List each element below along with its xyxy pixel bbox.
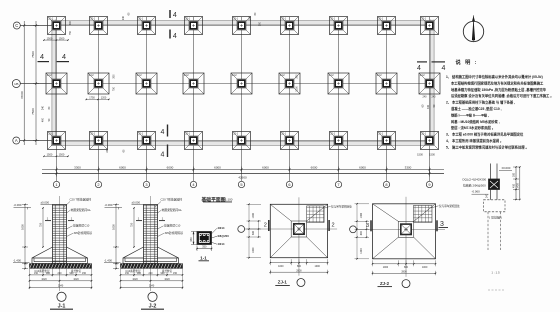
svg-text:400: 400: [427, 104, 430, 109]
pad footing ZJ-1 row A column 5: [233, 132, 251, 150]
svg-text:1020: 1020: [41, 278, 47, 281]
svg-text:-0.060: -0.060: [472, 189, 481, 193]
svg-text:6000: 6000: [167, 165, 174, 169]
svg-text:1020: 1020: [73, 278, 79, 281]
svg-text:1500: 1500: [59, 153, 65, 157]
svg-text:-0.060: -0.060: [105, 203, 113, 207]
svg-text:1000: 1000: [252, 247, 255, 253]
grid column line 6: [289, 17, 291, 181]
svg-text:900: 900: [70, 272, 75, 275]
grid bubble B: [12, 80, 20, 88]
svg-text:800: 800: [297, 265, 302, 268]
svg-text:7: 7: [337, 182, 339, 187]
svg-text:5: 5: [240, 182, 242, 187]
svg-text:1500: 1500: [47, 36, 53, 40]
grid column line 9: [429, 17, 431, 181]
svg-text:6000: 6000: [311, 165, 318, 169]
grid row line C (top axis): [20, 25, 434, 27]
plan detail ZJ-1: outer footing square: [270, 204, 327, 257]
svg-text:混凝土 ——独立基C25 ,垫层 C10 ,: 混凝土 ——独立基C25 ,垫层 C10 ,: [451, 106, 502, 111]
svg-text:240: 240: [42, 105, 45, 110]
svg-text:J-2: J-2: [149, 304, 157, 310]
section detail J-1: footing rebars: [34, 261, 86, 263]
svg-text:4Φ14: 4Φ14: [218, 226, 225, 230]
right strip footing wall (column 9) - edge lines: [429, 20, 431, 146]
section detail J-1: reinforced column shaft: [53, 205, 67, 264]
section detail J-2: extension lines: [120, 269, 122, 290]
svg-text:3、 本工程 ±0.000 相当于绝对标高详见总平面图定位: 3、 本工程 ±0.000 相当于绝对标高详见总平面图定位: [446, 132, 524, 137]
svg-text:4: 4: [161, 129, 165, 136]
DQL detail: wall lines above beam: [490, 164, 492, 180]
svg-text:4Φ14: 4Φ14: [218, 242, 225, 246]
DQL detail: wall below beam: [490, 190, 492, 200]
grid column line 4: [193, 17, 195, 181]
column rebar section 1-1: callout circle: [212, 236, 218, 238]
plan detail ZJ-2: leader text: [432, 206, 439, 208]
column rebar section 1-1: bottom dimension: [197, 248, 212, 250]
plan detail ZJ-1: crane-beam mesh patch: [307, 206, 325, 223]
svg-text:1、 结构施工图中尺寸单位除标高以米计外其余均以毫米计 (0: 1、 结构施工图中尺寸单位除标高以米计外其余均以毫米计 (05-5#): [446, 74, 543, 79]
svg-text:1500: 1500: [417, 153, 423, 157]
svg-text:J-1: J-1: [58, 304, 66, 310]
left vertical total dimension line 15000: [23, 21, 25, 145]
grid bubble 1: [53, 181, 59, 187]
svg-text:750: 750: [39, 222, 43, 227]
svg-text:150: 150: [34, 272, 39, 275]
plan detail ZJ-2: crane-beam mesh patch: [414, 205, 433, 222]
svg-text:240: 240: [58, 272, 63, 275]
svg-text:240: 240: [432, 95, 437, 98]
pad footing ZJ-1 row C column 1: [48, 17, 66, 35]
pad footing ZJ-2 row B column 4: [183, 73, 204, 94]
section detail J-1: left inner dimension line 750: [42, 208, 44, 247]
DQL detail: foundation below (dashed): [484, 200, 506, 212]
svg-text:2800: 2800: [296, 269, 302, 272]
grid column line 8: [386, 17, 388, 181]
svg-text:A: A: [15, 138, 18, 143]
grid row line A (bottom axis): [20, 140, 434, 142]
plan detail ZJ-2: section 3 cut marks: [370, 220, 372, 231]
plan detail ZJ-1: callout circle on axis: [238, 226, 245, 233]
svg-text:-0.060: -0.060: [14, 203, 22, 207]
svg-text:±0.000: ±0.000: [41, 200, 50, 204]
section detail J-2: footing trapezoid with stepped base: [123, 247, 179, 264]
svg-text:2: 2: [332, 223, 335, 229]
svg-text:后须经勘察 设计及有关单位共同验槽 ,合格后方可进行下道工序: 后须经勘察 设计及有关单位共同验槽 ,合格后方可进行下道工序施工 。: [450, 93, 554, 98]
pad footing ZJ-1 row A column 7: [330, 132, 348, 150]
svg-text:1-1: 1-1: [200, 255, 207, 260]
svg-text:3300: 3300: [74, 165, 81, 169]
svg-text:800: 800: [252, 230, 255, 235]
svg-text:900: 900: [46, 272, 51, 275]
plan detail ZJ-1: inner column squares: [291, 221, 307, 237]
DQL detail: right dimension lines: [515, 167, 517, 200]
svg-text:150: 150: [125, 272, 130, 275]
svg-text:说 明 :: 说 明 :: [456, 58, 479, 66]
svg-text:2: 2: [97, 182, 99, 187]
svg-text:1650: 1650: [112, 224, 116, 230]
svg-text:1000: 1000: [360, 212, 363, 218]
svg-text:1750: 1750: [89, 97, 95, 100]
pad footing ZJ-1 row A column 1: [48, 132, 66, 150]
svg-text:M5砂浆砌砖基: M5砂浆砌砖基: [165, 231, 183, 235]
svg-text:1000: 1000: [252, 212, 255, 218]
section detail J-2: axis centerline: [150, 196, 152, 291]
DQL detail: ring beam section block: [489, 179, 500, 190]
svg-text:4: 4: [161, 152, 165, 159]
svg-text:800: 800: [360, 231, 363, 236]
pad footing ZJ-2 row B column 1: [46, 73, 67, 94]
pad footing ZJ-2 row B column 8: [376, 73, 397, 94]
plan detail ZJ-1: leader text: [324, 206, 331, 208]
grid bubble 8: [383, 181, 389, 187]
section detail J-1: footing trapezoid with stepped base: [32, 247, 88, 264]
section detail J-2: title circle: [148, 292, 157, 301]
svg-text:仅与吊车梁相连处: 仅与吊车梁相连处: [439, 204, 460, 208]
pad footing ZJ-2 row B column 6: [279, 73, 300, 94]
svg-text:地圈梁配筋同GL: 地圈梁配筋同GL: [162, 208, 183, 212]
section detail J-1: left outer dimension line: [24, 205, 26, 269]
plan detail ZJ-2: inner column squares: [398, 221, 414, 237]
svg-text:拉结筋 2Φ6@500: 拉结筋 2Φ6@500: [463, 182, 486, 187]
section detail J-2: footing rebars: [125, 261, 177, 263]
svg-text:6000: 6000: [214, 165, 221, 169]
pad footing ZJ-1 row C column 5: [233, 17, 251, 35]
svg-text:750: 750: [113, 86, 116, 91]
grid bubble 7: [335, 181, 341, 187]
svg-text:2040: 2040: [149, 285, 155, 288]
column rebar section 1-1: black section block: [197, 232, 212, 245]
svg-text:4: 4: [417, 65, 421, 72]
strip wall light fill bands: [51, 21, 434, 25]
svg-text:4、 本工程所用 砖基须提前浇水湿润 。: 4、 本工程所用 砖基须提前浇水湿润 。: [446, 138, 503, 143]
svg-text:800: 800: [404, 266, 409, 269]
top strip footing wall (row C) - edge lines: [51, 20, 434, 22]
pad footing ZJ-1 row A column 6: [281, 132, 299, 150]
grid column line 3: [146, 17, 148, 181]
svg-text:6000: 6000: [359, 165, 366, 169]
dimension line: overall dimension 42600: [42, 173, 444, 175]
svg-text:750: 750: [69, 30, 72, 35]
plan detail ZJ-1: slope diagonals: [270, 204, 291, 221]
pad footing ZJ-1 row C column 2: [90, 17, 108, 35]
svg-text:1000: 1000: [278, 265, 284, 268]
svg-text:1400: 1400: [517, 183, 520, 189]
grid column line 5: [241, 17, 243, 181]
svg-text:1500: 1500: [59, 36, 65, 40]
svg-text:1:100: 1:100: [225, 198, 233, 202]
column rebar section 1-1: rebar callout leaders: [212, 228, 218, 234]
pad footing ZJ-1 row A column 2: [90, 132, 108, 150]
pad footing ZJ-1 row A column 8: [378, 132, 396, 150]
pad footing ZJ-2 row B column 7: [328, 73, 349, 94]
svg-text:2: 2: [264, 223, 267, 229]
plan detail ZJ-1: left dimension lines: [248, 204, 250, 257]
section detail J-1: bottom dimension chain: [30, 274, 92, 276]
svg-text:750: 750: [130, 222, 134, 227]
svg-text:4: 4: [173, 33, 177, 40]
svg-text:基础垫层C10: 基础垫层C10: [164, 224, 181, 228]
svg-text:2040: 2040: [58, 285, 64, 288]
svg-text:400: 400: [42, 117, 45, 122]
section detail J-2: bottom dimension chain: [121, 274, 183, 276]
pad footing ZJ-2 row B column 3: [136, 73, 157, 94]
svg-text:3: 3: [145, 182, 147, 187]
column rebar section 1-1: left dimension: [193, 232, 195, 245]
plan detail ZJ-2: bottom dimension lines: [373, 263, 436, 265]
svg-text:1500: 1500: [47, 153, 53, 157]
north arrow compass: [463, 21, 483, 41]
svg-text:-1.400: -1.400: [13, 258, 21, 262]
svg-text:300: 300: [296, 74, 299, 79]
svg-text:900: 900: [137, 272, 142, 275]
svg-text:钢筋 Ⅰ——Φ级 Ⅱ——Φ级 ,: 钢筋 Ⅰ——Φ级 Ⅱ——Φ级 ,: [451, 112, 489, 117]
svg-text:ZJ-2: ZJ-2: [380, 281, 390, 286]
svg-text:240: 240: [149, 272, 154, 275]
pad footing ZJ-1 row A column 4: [185, 132, 203, 150]
svg-text:1200: 1200: [101, 97, 107, 100]
svg-text:C20 T形基础短柱: C20 T形基础短柱: [161, 198, 183, 202]
svg-text:±0.000: ±0.000: [132, 200, 141, 204]
svg-text:300: 300: [113, 74, 116, 79]
svg-text:1650: 1650: [21, 224, 25, 230]
pad footing ZJ-1 row C column 4: [185, 17, 203, 35]
dimension line: bay dimensions: [42, 169, 444, 171]
svg-text:C: C: [15, 23, 18, 28]
bottom strip footing wall (row A) - edge lines: [51, 140, 434, 142]
svg-text:地基承载力特征值取 150kPa ,持力层为粉质粘土层 ,基: 地基承载力特征值取 150kPa ,持力层为粉质粘土层 ,基槽开挖完毕: [451, 87, 547, 92]
svg-text:地圈梁配筋同GL: 地圈梁配筋同GL: [71, 208, 92, 212]
section detail J-2: left inner dimension line 750: [133, 208, 135, 247]
svg-text:300: 300: [513, 172, 516, 177]
pad footing ZJ-1 row C column 3: [138, 17, 156, 35]
svg-text:1000: 1000: [314, 265, 320, 268]
svg-text:42600: 42600: [238, 176, 247, 180]
pad footing ZJ-1 row C column 8: [378, 17, 396, 35]
grid bubble 6: [286, 181, 292, 187]
svg-text:C20 T形基础短柱: C20 T形基础短柱: [70, 198, 92, 202]
svg-text:3300: 3300: [405, 165, 412, 169]
svg-text:M5砂浆砌砖基: M5砂浆砌砖基: [74, 231, 92, 235]
svg-text:6000: 6000: [119, 165, 126, 169]
svg-text:1500: 1500: [429, 153, 435, 157]
svg-text:240: 240: [122, 15, 125, 20]
svg-text:240: 240: [249, 15, 252, 20]
svg-text:4: 4: [62, 52, 66, 61]
plan detail ZJ-2: centerlines: [356, 228, 445, 230]
svg-text:3: 3: [366, 223, 369, 229]
grid bubble A: [13, 137, 20, 144]
svg-text:1000: 1000: [422, 266, 428, 269]
grid column line 1: [56, 17, 58, 181]
left strip footing wall (column 1) - edge lines: [51, 20, 53, 146]
svg-text:1000: 1000: [383, 266, 389, 269]
svg-text:240: 240: [485, 193, 488, 198]
svg-text:5、 施工中如发现异常情况请及时与设计单位联系处理 。: 5、 施工中如发现异常情况请及时与设计单位联系处理 。: [446, 144, 529, 149]
plan detail ZJ-1: title circle: [297, 279, 305, 287]
svg-text:150: 150: [82, 272, 87, 275]
section 4-4 cut at top strip: [169, 10, 171, 18]
svg-text:350: 350: [189, 237, 193, 242]
section detail J-2: reinforced column shaft: [144, 205, 158, 264]
pad footing ZJ-2 row B column 9: [419, 73, 440, 94]
svg-text:1000: 1000: [360, 248, 363, 254]
plan detail ZJ-2: callout circle on axis: [350, 226, 357, 233]
svg-text:900: 900: [161, 272, 166, 275]
grid column line 2: [98, 17, 100, 181]
plan detail ZJ-2: left dimension lines: [356, 204, 358, 259]
grid bubble 9: [426, 181, 432, 187]
svg-text:-1.400: -1.400: [104, 258, 112, 262]
pad footing ZJ-1 row A column 9: [421, 132, 439, 150]
svg-text:1 : 1.5: 1 : 1.5: [491, 271, 500, 275]
svg-text:Φ8@200: Φ8@200: [218, 234, 230, 238]
svg-text:7500: 7500: [31, 108, 35, 115]
section detail J-1: axis centerline: [59, 196, 61, 291]
pad footing ZJ-1 row C column 6: [281, 17, 299, 35]
svg-text:300: 300: [69, 20, 72, 25]
svg-text:7500: 7500: [31, 51, 35, 58]
grid row line B (middle axis): [20, 83, 434, 85]
svg-text:4: 4: [442, 65, 446, 72]
svg-text:2800: 2800: [401, 270, 407, 273]
pad footing ZJ-1 row A column 3: [138, 132, 156, 150]
plan detail ZJ-1: section 2 cut marks: [268, 220, 270, 231]
svg-text:砖基 : MU10烧结砖 M5水泥砂浆 ,: 砖基 : MU10烧结砖 M5水泥砂浆 ,: [450, 119, 500, 124]
svg-text:1020: 1020: [164, 278, 170, 281]
section 4-4 cut at bottom strip: [167, 125, 169, 137]
svg-text:6: 6: [288, 182, 290, 187]
grid bubble 4: [190, 181, 196, 187]
pad footing ZJ-2 row B column 2: [88, 73, 109, 94]
grid bubble 2: [95, 181, 101, 187]
section detail J-2: bedding slab with hatch: [121, 264, 183, 269]
plan detail ZJ-2: outer footing square: [373, 204, 436, 259]
section detail J-2: section 1-1 cut marks on column: [136, 220, 142, 222]
svg-text:±0.000: ±0.000: [502, 166, 511, 170]
svg-text:300: 300: [259, 21, 262, 26]
pad footing ZJ-1 row C column 9: [421, 17, 439, 35]
section detail J-2: left outer dimension line: [115, 205, 117, 269]
svg-text:垫层 : 浇M7.5水泥砂浆面层 。: 垫层 : 浇M7.5水泥砂浆面层 。: [451, 125, 495, 130]
svg-text:1/B: 1/B: [14, 82, 18, 86]
plan detail ZJ-2: title circle: [402, 280, 410, 288]
svg-text:240: 240: [423, 95, 428, 98]
svg-text:1: 1: [55, 182, 57, 187]
svg-text:( 见基础 ): ( 见基础 ): [489, 214, 502, 219]
section detail J-1: section 1-1 cut marks on column: [45, 220, 51, 222]
grid bubble 3: [143, 181, 149, 187]
plan detail ZJ-1: centerlines: [244, 228, 337, 230]
svg-text:15000: 15000: [20, 91, 24, 99]
svg-text:DQL(2-4)240X300: DQL(2-4)240X300: [463, 177, 487, 181]
svg-text:1200: 1200: [296, 86, 299, 92]
grid bubble C: [13, 22, 20, 29]
plan detail ZJ-1: bottom dimension lines: [270, 262, 327, 264]
svg-text:150: 150: [173, 272, 178, 275]
svg-text:350: 350: [202, 244, 207, 248]
svg-text:仅与吊车梁相连处: 仅与吊车梁相连处: [331, 205, 352, 209]
svg-text:ZJ-1: ZJ-1: [278, 280, 288, 285]
svg-text:本工程结构按现行国家规范及地方有关规定和有关标准图集施工: 本工程结构按现行国家规范及地方有关规定和有关标准图集施工: [450, 80, 544, 85]
plan detail ZJ-2: slope diagonals: [373, 204, 399, 222]
svg-text:240: 240: [106, 148, 109, 153]
grid bubble 5: [238, 181, 244, 187]
pad footing ZJ-1 row C column 7: [330, 17, 348, 35]
grid column line 7: [338, 17, 340, 181]
section detail J-1: bedding slab with hatch: [30, 264, 92, 269]
svg-text:基础垫层C10: 基础垫层C10: [73, 224, 90, 228]
svg-text:1020: 1020: [132, 278, 138, 281]
section detail J-1: title circle: [57, 292, 66, 301]
left vertical dimension line 7500/7500: [35, 21, 37, 145]
svg-text:6000: 6000: [262, 165, 269, 169]
svg-text:9: 9: [428, 182, 430, 187]
svg-text:450: 450: [513, 183, 516, 188]
svg-text:4: 4: [173, 12, 177, 19]
section detail J-1: extension lines: [29, 269, 31, 290]
svg-text:2、 本工程基础采用柱下独立基础 与 墙下条基 ,: 2、 本工程基础采用柱下独立基础 与 墙下条基 ,: [446, 100, 515, 105]
svg-text:3: 3: [440, 221, 444, 228]
svg-text:4: 4: [40, 52, 44, 61]
svg-text:8: 8: [385, 182, 387, 187]
pad footing ZJ-2 row B column 5: [231, 73, 252, 94]
